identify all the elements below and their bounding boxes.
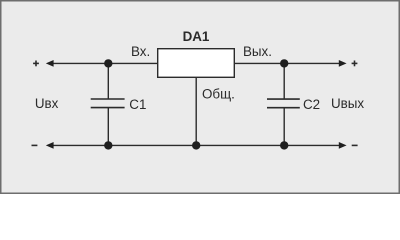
svg-text:Вых.: Вых. [243, 44, 272, 59]
svg-text:Общ.: Общ. [202, 87, 235, 102]
svg-text:C2: C2 [303, 97, 320, 112]
svg-text:Вх.: Вх. [131, 44, 150, 59]
svg-text:DA1: DA1 [183, 29, 210, 44]
svg-text:C1: C1 [129, 97, 146, 112]
svg-text:Uвх: Uвх [35, 96, 59, 111]
svg-text:Uвых: Uвых [331, 96, 364, 111]
